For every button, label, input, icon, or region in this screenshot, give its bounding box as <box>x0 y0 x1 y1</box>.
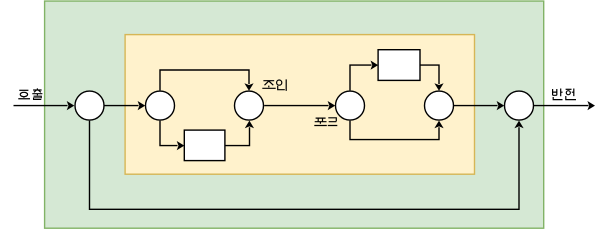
outer green container <box>45 1 544 228</box>
wire P5 to P6 <box>454 105 498 107</box>
wire P2 bottom to task T1 <box>160 121 178 146</box>
arrowhead output right <box>587 101 595 110</box>
arrowhead into node P2 <box>138 101 146 110</box>
wire fork upper branch to task T2 <box>350 65 372 90</box>
arrowhead into node P4 <box>328 101 336 110</box>
arrowhead up into node P5 bottom <box>434 121 443 129</box>
wire task T1 to node P3 bottom <box>225 127 250 145</box>
label fork <box>314 118 337 126</box>
arrowhead down into node P5 top <box>434 83 443 91</box>
arrowhead down into node P3 top <box>244 83 253 91</box>
arrowhead into node P6 <box>497 101 505 110</box>
wire input arrow <box>14 105 68 107</box>
inner yellow container <box>125 35 474 175</box>
arrowhead up into node P3 bottom <box>245 121 254 129</box>
node P4 fork <box>336 91 365 120</box>
wire task T2 to node P5 top <box>420 65 439 84</box>
wire output arrow <box>534 105 589 107</box>
node P1 <box>75 91 104 120</box>
task T1 rectangle <box>184 130 225 161</box>
arrowhead into task T2 left <box>371 61 379 70</box>
arrowhead up into node P6 bottom <box>514 121 523 129</box>
node P2 <box>146 91 175 120</box>
arrowhead into node P1 <box>67 101 75 110</box>
task T2 rectangle <box>378 50 420 81</box>
node P5 <box>425 91 454 120</box>
wire feedback loop P1 to P6 <box>90 121 520 210</box>
wire P3 to P4 <box>264 105 328 107</box>
wire join upper branch <box>160 70 249 90</box>
label hochul (call) <box>18 88 42 99</box>
node P3 join <box>235 91 264 120</box>
wire P1 to P2 <box>104 105 138 107</box>
label banhwan (return) <box>553 89 576 100</box>
wire fork lower branch <box>350 121 439 140</box>
node P6 <box>505 91 534 120</box>
arrowhead into task T1 left <box>177 141 185 150</box>
label join <box>262 79 286 91</box>
